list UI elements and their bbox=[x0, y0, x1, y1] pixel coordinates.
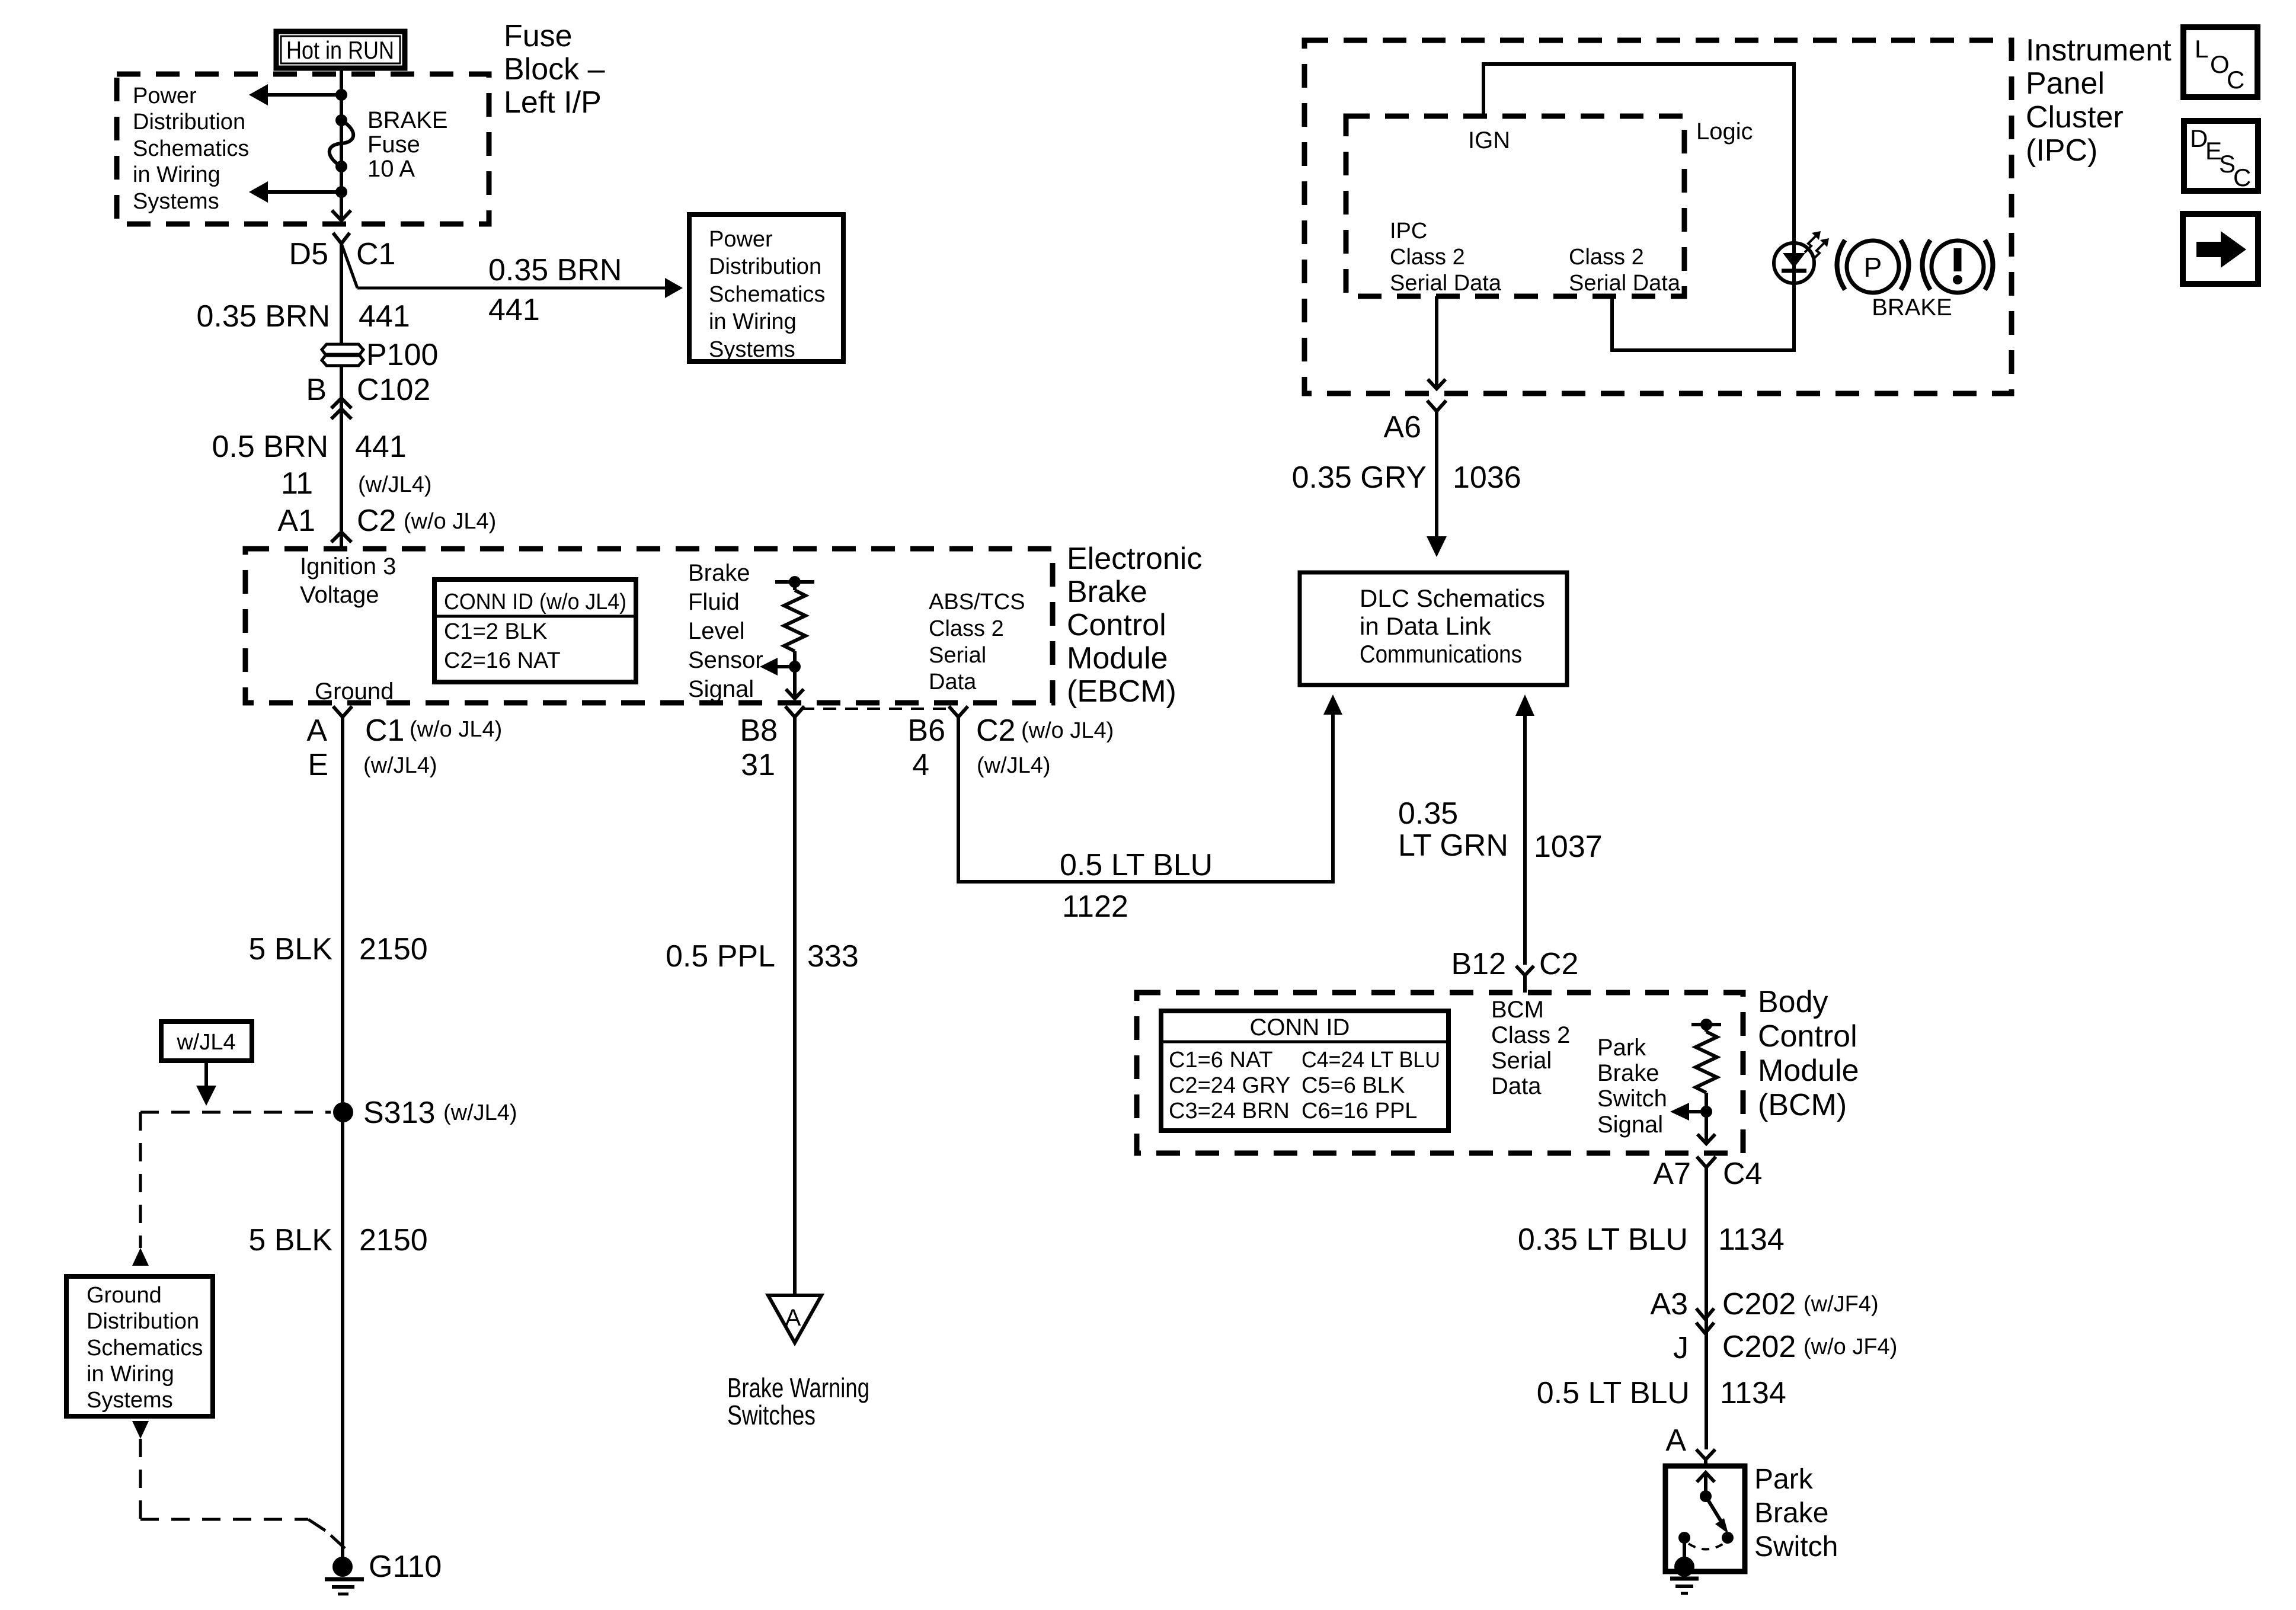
wire from Hot in RUN through fuse bbox=[340, 68, 343, 222]
svg-text:Distribution: Distribution bbox=[87, 1309, 199, 1334]
ground (park brake switch) bbox=[1670, 1579, 1699, 1593]
svg-text:BRAKE: BRAKE bbox=[367, 107, 448, 133]
sidebar LOC box bbox=[2183, 27, 2257, 97]
off-page triangle A (brake warning switches) bbox=[727, 1295, 869, 1430]
svg-text:in Data Link: in Data Link bbox=[1360, 612, 1492, 640]
module title Instrument Panel Cluster (IPC) bbox=[2026, 33, 2172, 168]
svg-text:Data: Data bbox=[929, 670, 977, 694]
svg-text:Level: Level bbox=[688, 618, 745, 644]
svg-text:(w/JL4): (w/JL4) bbox=[363, 753, 437, 778]
module title Fuse Block - Left I/P bbox=[504, 19, 605, 120]
svg-text:0.35 LT BLU: 0.35 LT BLU bbox=[1518, 1222, 1688, 1257]
svg-text:441: 441 bbox=[355, 430, 407, 464]
wire 0.35 GRY 1036 with arrow to DLC bbox=[1292, 411, 1521, 557]
svg-text:Switches: Switches bbox=[727, 1400, 816, 1430]
svg-text:(w/o JL4): (w/o JL4) bbox=[404, 509, 496, 534]
reference text Power Distribution Schematics in Wiring Systems bbox=[133, 84, 249, 214]
wire IGN loop to LED bbox=[1483, 64, 1794, 245]
svg-text:w/JL4: w/JL4 bbox=[176, 1030, 235, 1055]
svg-text:(w/JL4): (w/JL4) bbox=[977, 753, 1051, 778]
pin label Brake Fluid Level Sensor Signal bbox=[688, 560, 763, 702]
module title Body Control Module (BCM) bbox=[1758, 985, 1859, 1122]
svg-text:0.35 GRY: 0.35 GRY bbox=[1292, 460, 1427, 495]
BCM dashed box bbox=[1137, 993, 1743, 1153]
svg-text:Park: Park bbox=[1754, 1464, 1814, 1495]
svg-text:Distribution: Distribution bbox=[133, 110, 245, 135]
svg-text:C1: C1 bbox=[365, 713, 404, 748]
wire class 2 serial data out of IPC bbox=[1435, 296, 1438, 388]
svg-text:Voltage: Voltage bbox=[300, 582, 379, 608]
svg-text:(w/JL4): (w/JL4) bbox=[358, 472, 432, 497]
svg-text:Serial Data: Serial Data bbox=[1569, 271, 1681, 296]
svg-text:Control: Control bbox=[1758, 1019, 1857, 1054]
pin label IPC Class 2 Serial Data bbox=[1390, 219, 1502, 296]
wire 0.35 LT GRN 1037 with arrow to DLC bbox=[1398, 694, 1603, 965]
svg-text:Park: Park bbox=[1597, 1035, 1646, 1061]
svg-text:0.35 BRN: 0.35 BRN bbox=[488, 253, 622, 287]
wire 441 down bbox=[340, 244, 343, 345]
connector A3 C202 (w/JF4) bbox=[1650, 1287, 1878, 1321]
svg-text:IPC: IPC bbox=[1390, 219, 1427, 244]
svg-text:C2=16 NAT: C2=16 NAT bbox=[444, 648, 561, 673]
label Park Brake Switch bbox=[1754, 1464, 1838, 1563]
svg-text:Signal: Signal bbox=[688, 676, 754, 702]
svg-text:0.35 BRN: 0.35 BRN bbox=[197, 299, 330, 334]
svg-text:C4=24 LT BLU: C4=24 LT BLU bbox=[1302, 1048, 1440, 1073]
svg-text:4: 4 bbox=[912, 748, 929, 782]
svg-text:Sensor: Sensor bbox=[688, 647, 763, 673]
svg-text:Power: Power bbox=[709, 227, 773, 252]
reference box Power Distribution Schematics in Wiring Systems bbox=[689, 215, 843, 362]
svg-text:11: 11 bbox=[281, 466, 313, 501]
ground G110 bbox=[325, 1112, 442, 1594]
svg-text:Serial: Serial bbox=[1491, 1048, 1552, 1074]
svg-text:C1=6 NAT: C1=6 NAT bbox=[1169, 1048, 1273, 1073]
svg-text:IGN: IGN bbox=[1468, 127, 1510, 153]
svg-text:C: C bbox=[2233, 164, 2251, 191]
svg-text:Class 2: Class 2 bbox=[1569, 245, 1644, 270]
svg-text:Signal: Signal bbox=[1597, 1112, 1663, 1138]
indicator (!) BRAKE bbox=[1923, 240, 1993, 293]
svg-text:BRAKE: BRAKE bbox=[1872, 295, 1952, 321]
svg-text:Control: Control bbox=[1067, 608, 1166, 642]
svg-text:C5=6 BLK: C5=6 BLK bbox=[1302, 1073, 1405, 1098]
svg-text:(w/JF4): (w/JF4) bbox=[1803, 1292, 1879, 1317]
svg-text:Schematics: Schematics bbox=[709, 282, 825, 307]
svg-text:A: A bbox=[306, 713, 327, 748]
node Hot in RUN bbox=[276, 31, 405, 68]
svg-text:0.5 BRN: 0.5 BRN bbox=[212, 430, 328, 464]
svg-text:C202: C202 bbox=[1722, 1287, 1796, 1321]
connector A/E C1 below EBCM bbox=[306, 706, 502, 782]
svg-text:A7: A7 bbox=[1653, 1157, 1691, 1191]
wire 0.5 PPL 333 bbox=[793, 717, 797, 1295]
svg-text:B: B bbox=[306, 373, 327, 407]
svg-text:B12: B12 bbox=[1451, 947, 1506, 981]
svg-text:C2=24 GRY: C2=24 GRY bbox=[1169, 1073, 1290, 1098]
label 5 BLK 2150 lower bbox=[248, 1223, 427, 1257]
svg-text:Logic: Logic bbox=[1696, 119, 1753, 145]
connector B C102 bbox=[306, 366, 430, 549]
arrow out of fuse block bbox=[332, 210, 351, 220]
svg-text:C2: C2 bbox=[357, 504, 396, 538]
connector B8/31 bbox=[740, 706, 804, 782]
svg-text:Class 2: Class 2 bbox=[1390, 245, 1465, 270]
svg-text:in Wiring: in Wiring bbox=[87, 1362, 174, 1387]
svg-text:A1: A1 bbox=[277, 504, 315, 538]
svg-text:Serial Data: Serial Data bbox=[1390, 271, 1502, 296]
pin label Park Brake Switch Signal bbox=[1597, 1035, 1667, 1138]
dashed wire from box to G110 bbox=[139, 1439, 142, 1519]
svg-text:Data: Data bbox=[1491, 1073, 1542, 1099]
svg-text:Schematics: Schematics bbox=[133, 136, 249, 161]
svg-text:DLC Schematics: DLC Schematics bbox=[1360, 584, 1545, 612]
svg-text:CONN ID: CONN ID bbox=[1250, 1014, 1350, 1041]
IPC outer dashed box bbox=[1304, 40, 2012, 393]
svg-text:(IPC): (IPC) bbox=[2026, 133, 2097, 168]
svg-text:Fuse: Fuse bbox=[504, 19, 573, 53]
svg-text:C6=16 PPL: C6=16 PPL bbox=[1302, 1099, 1417, 1124]
svg-text:(w/o JF4): (w/o JF4) bbox=[1803, 1334, 1897, 1359]
svg-text:Body: Body bbox=[1758, 985, 1828, 1019]
fuse block dashed box (Fuse Block - Left I/P) bbox=[117, 74, 489, 224]
svg-text:Schematics: Schematics bbox=[87, 1336, 203, 1361]
svg-text:1037: 1037 bbox=[1534, 830, 1603, 864]
svg-text:C1: C1 bbox=[356, 237, 395, 271]
svg-text:Ground: Ground bbox=[315, 678, 394, 705]
svg-text:Distribution: Distribution bbox=[709, 254, 821, 279]
label 0.5 BRN 441 bbox=[212, 430, 406, 464]
wire 0.35 LT BLU 1134 bbox=[1705, 1167, 1708, 1449]
svg-text:2150: 2150 bbox=[359, 932, 428, 966]
svg-text:Systems: Systems bbox=[709, 337, 795, 362]
CONN ID table bbox=[1161, 1011, 1448, 1131]
wire arrow to power distribution (upper) bbox=[268, 93, 341, 97]
reference box DLC Schematics in Data Link Communications bbox=[1300, 572, 1567, 685]
resistor (park brake switch pull-up) bbox=[1670, 1019, 1721, 1144]
svg-text:B6: B6 bbox=[907, 713, 945, 748]
connector A6 bbox=[1383, 401, 1446, 444]
svg-text:A: A bbox=[1665, 1423, 1686, 1458]
svg-text:Panel: Panel bbox=[2026, 66, 2105, 101]
svg-text:5 BLK: 5 BLK bbox=[248, 932, 332, 966]
CONN ID table (w/o JL4) bbox=[434, 580, 636, 682]
svg-text:Module: Module bbox=[1067, 641, 1168, 676]
svg-text:P: P bbox=[1864, 252, 1882, 283]
svg-text:(w/JL4): (w/JL4) bbox=[443, 1100, 517, 1125]
svg-text:C: C bbox=[2227, 66, 2244, 94]
svg-text:10 A: 10 A bbox=[367, 156, 415, 182]
svg-text:1134: 1134 bbox=[1718, 1222, 1785, 1257]
svg-text:C3=24 BRN: C3=24 BRN bbox=[1169, 1099, 1290, 1124]
svg-text:C1=2 BLK: C1=2 BLK bbox=[444, 619, 547, 644]
svg-text:D5: D5 bbox=[289, 237, 328, 271]
wire 0.5 LT BLU 1122 to DLC bbox=[958, 694, 1342, 924]
svg-text:(w/o JL4): (w/o JL4) bbox=[1021, 718, 1114, 743]
svg-text:Brake: Brake bbox=[1597, 1060, 1659, 1086]
svg-text:Switch: Switch bbox=[1754, 1531, 1838, 1563]
svg-text:(EBCM): (EBCM) bbox=[1067, 674, 1176, 709]
svg-text:5 BLK: 5 BLK bbox=[248, 1223, 332, 1257]
svg-text:0.35: 0.35 bbox=[1398, 796, 1458, 831]
label 0.35 BRN 441 bbox=[197, 299, 410, 334]
svg-text:Hot in RUN: Hot in RUN bbox=[286, 36, 394, 64]
svg-text:Brake Warning: Brake Warning bbox=[727, 1372, 869, 1403]
svg-text:Ignition 3: Ignition 3 bbox=[300, 553, 396, 580]
connector B6/4 C2 bbox=[907, 706, 1114, 782]
svg-text:Instrument: Instrument bbox=[2026, 33, 2172, 68]
connector A (park brake switch) bbox=[1665, 1423, 1715, 1459]
svg-text:ABS/TCS: ABS/TCS bbox=[929, 590, 1025, 614]
svg-text:Systems: Systems bbox=[133, 189, 219, 214]
svg-text:441: 441 bbox=[488, 293, 540, 327]
thin dashed variant line between B8 and B6 bbox=[801, 708, 951, 710]
svg-text:A: A bbox=[785, 1305, 801, 1331]
connector A7 C4 bbox=[1653, 1157, 1762, 1191]
svg-text:Electronic: Electronic bbox=[1067, 542, 1202, 576]
svg-text:1134: 1134 bbox=[1720, 1376, 1786, 1410]
svg-text:Block –: Block – bbox=[504, 52, 605, 87]
svg-text:C202: C202 bbox=[1722, 1330, 1796, 1364]
wire branch to power distribution schematics box bbox=[341, 244, 357, 288]
dashed wire to ground distribution bbox=[139, 1112, 142, 1248]
svg-text:Brake: Brake bbox=[1754, 1497, 1828, 1529]
svg-text:Class 2: Class 2 bbox=[1491, 1022, 1570, 1048]
svg-text:A6: A6 bbox=[1383, 410, 1421, 444]
splice S313 bbox=[140, 1096, 517, 1130]
svg-text:Module: Module bbox=[1758, 1054, 1859, 1088]
park brake switch box bbox=[1665, 1459, 1745, 1577]
svg-text:C102: C102 bbox=[357, 373, 430, 407]
module title Electronic Brake Control Module (EBCM) bbox=[1067, 542, 1202, 709]
svg-text:Ground: Ground bbox=[87, 1283, 162, 1308]
LED indicator bbox=[1774, 231, 1829, 283]
svg-text:E: E bbox=[308, 748, 328, 782]
svg-text:BCM: BCM bbox=[1491, 997, 1544, 1023]
svg-text:S313: S313 bbox=[363, 1096, 435, 1130]
fuse BRAKE Fuse 10 A bbox=[330, 107, 448, 182]
svg-text:1122: 1122 bbox=[1062, 889, 1128, 924]
svg-text:C4: C4 bbox=[1723, 1157, 1762, 1191]
pin label BCM Class 2 Serial Data bbox=[1491, 997, 1570, 1099]
svg-text:Switch: Switch bbox=[1597, 1086, 1667, 1112]
svg-text:0.5 LT BLU: 0.5 LT BLU bbox=[1537, 1376, 1690, 1410]
svg-text:Power: Power bbox=[133, 84, 197, 108]
svg-text:Brake: Brake bbox=[1067, 575, 1147, 609]
reference box Ground Distribution Schematics in Wiring Systems bbox=[66, 1276, 213, 1416]
svg-text:L: L bbox=[2195, 35, 2208, 63]
svg-text:31: 31 bbox=[741, 748, 775, 782]
svg-text:B8: B8 bbox=[740, 713, 778, 748]
connector A1 C2 (w/o JL4) bbox=[277, 504, 496, 542]
label 0.5 LT BLU 1134 bbox=[1537, 1376, 1786, 1410]
connector J C202 (w/o JF4) bbox=[1673, 1323, 1897, 1365]
connector B12 C2 bbox=[1451, 947, 1578, 993]
junction dot bbox=[335, 89, 347, 101]
svg-text:Communications: Communications bbox=[1360, 640, 1522, 668]
junction dot bbox=[335, 186, 347, 198]
svg-text:1036: 1036 bbox=[1453, 460, 1521, 495]
svg-text:Fluid: Fluid bbox=[688, 589, 740, 615]
IPC inner dashed box bbox=[1346, 116, 1684, 296]
indicator (P) BRAKE bbox=[1837, 240, 1909, 293]
svg-text:J: J bbox=[1673, 1331, 1689, 1365]
label 11 (w/JL4) bbox=[281, 466, 432, 501]
wire LED to logic bbox=[1612, 281, 1794, 350]
sidebar forward arrow box bbox=[2183, 214, 2258, 284]
svg-text:in Wiring: in Wiring bbox=[133, 162, 220, 187]
svg-text:Left I/P: Left I/P bbox=[504, 85, 602, 120]
connector D5 C1 bbox=[289, 233, 396, 271]
svg-text:333: 333 bbox=[807, 939, 859, 974]
svg-text:in Wiring: in Wiring bbox=[709, 309, 797, 334]
svg-text:Systems: Systems bbox=[87, 1388, 173, 1413]
svg-text:CONN ID (w/o JL4): CONN ID (w/o JL4) bbox=[444, 590, 626, 614]
svg-text:(BCM): (BCM) bbox=[1758, 1088, 1847, 1122]
svg-text:Fuse: Fuse bbox=[367, 132, 420, 158]
svg-text:Serial: Serial bbox=[929, 643, 986, 668]
sidebar DESC box bbox=[2184, 121, 2258, 191]
pass-through grommet P100 bbox=[322, 338, 438, 372]
node w/JL4 flag box bbox=[161, 1022, 252, 1106]
EBCM dashed box bbox=[245, 549, 1053, 703]
svg-text:(w/o JL4): (w/o JL4) bbox=[410, 717, 502, 742]
svg-text:P100: P100 bbox=[366, 338, 438, 372]
svg-text:Brake: Brake bbox=[688, 560, 750, 586]
svg-text:441: 441 bbox=[359, 299, 410, 334]
svg-text:2150: 2150 bbox=[359, 1223, 428, 1257]
svg-text:C2: C2 bbox=[1539, 947, 1578, 981]
svg-text:0.5 PPL: 0.5 PPL bbox=[666, 939, 775, 974]
svg-text:A3: A3 bbox=[1650, 1287, 1688, 1321]
svg-text:0.5 LT BLU: 0.5 LT BLU bbox=[1060, 848, 1213, 882]
wire arrow to power distribution (lower) bbox=[268, 190, 341, 194]
svg-text:Class 2: Class 2 bbox=[929, 616, 1004, 641]
pin label ABS/TCS Class 2 Serial Data bbox=[929, 590, 1025, 694]
svg-text:C2: C2 bbox=[976, 713, 1015, 748]
wire ground 5 BLK 2150 bbox=[341, 717, 344, 1112]
svg-text:Cluster: Cluster bbox=[2026, 100, 2124, 135]
pin label Class 2 Serial Data (logic side) bbox=[1569, 245, 1681, 296]
svg-text:LT GRN: LT GRN bbox=[1398, 828, 1508, 863]
resistor (brake fluid level sensor) bbox=[760, 576, 814, 699]
svg-text:G110: G110 bbox=[369, 1550, 442, 1584]
pin label Ignition 3 Voltage bbox=[300, 553, 396, 608]
